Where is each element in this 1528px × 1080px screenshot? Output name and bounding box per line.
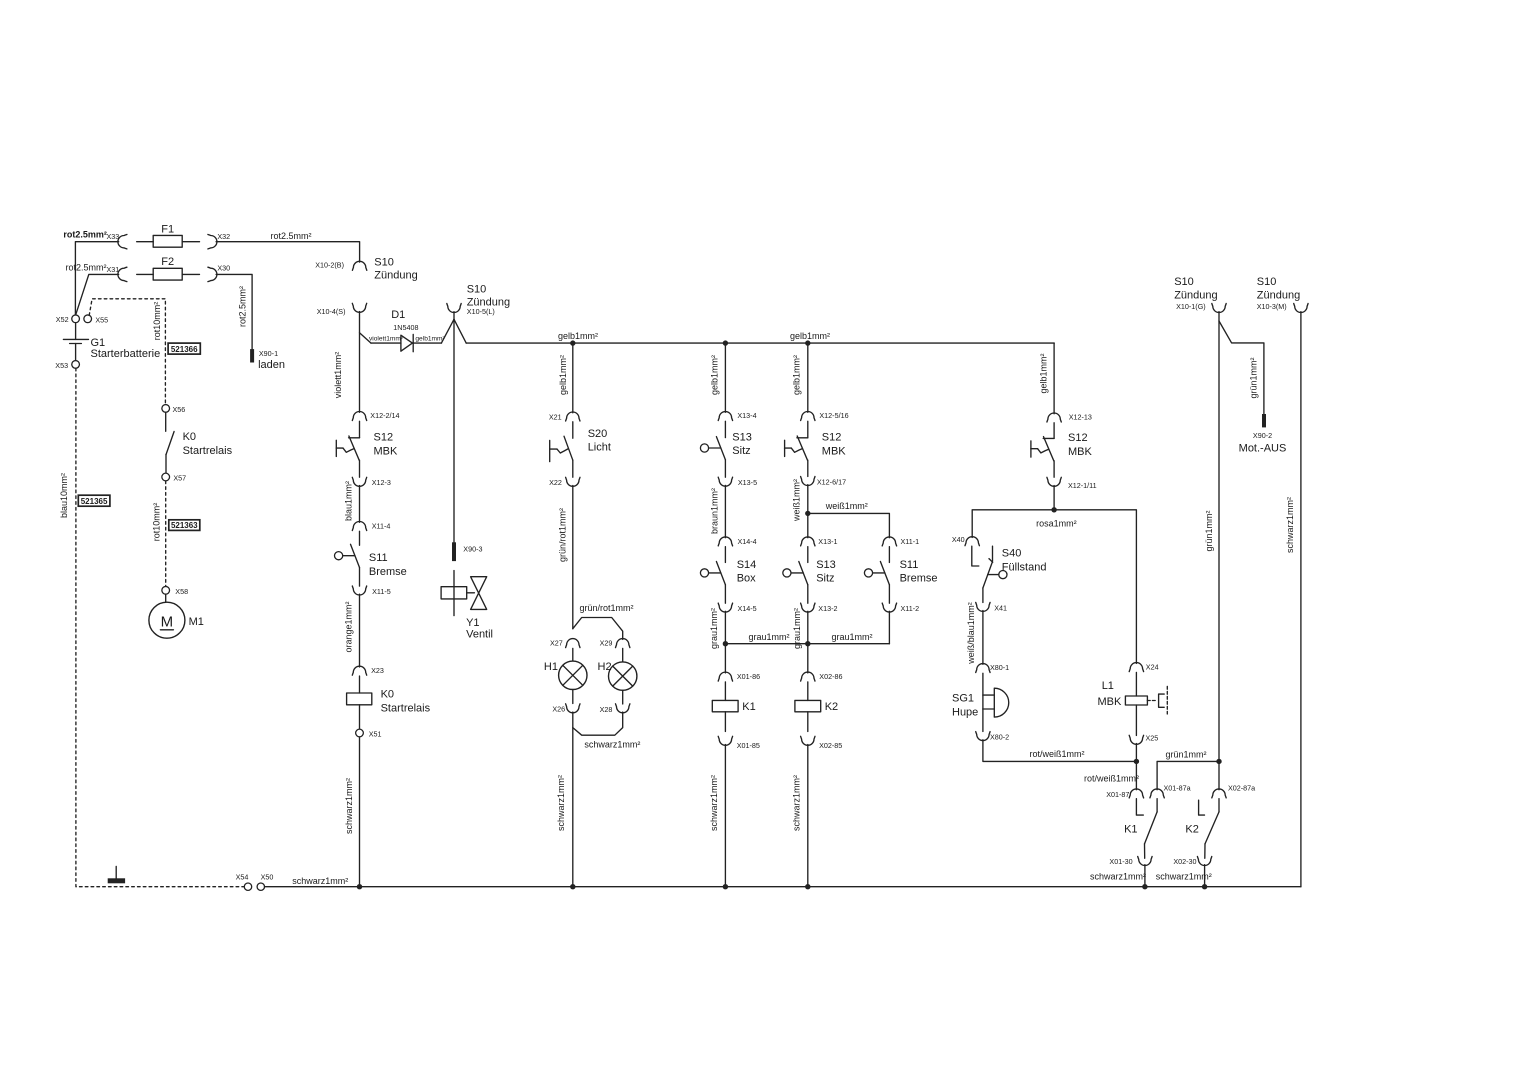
svg-text:S14: S14 bbox=[737, 559, 757, 571]
node X54 bbox=[244, 883, 251, 890]
switch S13 Sitz (2) bbox=[807, 547, 809, 563]
svg-text:Startrelais: Startrelais bbox=[381, 702, 431, 714]
relay coil K0 Startrelais bbox=[359, 676, 361, 693]
svg-text:X23: X23 bbox=[371, 666, 384, 675]
svg-text:blau1mm²: blau1mm² bbox=[343, 481, 353, 521]
switch S12 MBK (3) bbox=[1053, 423, 1055, 439]
connector X11-4 bbox=[352, 522, 366, 531]
svg-text:S11: S11 bbox=[900, 559, 919, 571]
svg-text:X30: X30 bbox=[217, 263, 230, 272]
junction bbox=[805, 340, 810, 345]
connector X80-1 bbox=[976, 664, 990, 673]
svg-text:X12-13: X12-13 bbox=[1069, 413, 1092, 422]
relay contact K1 bbox=[1136, 799, 1143, 815]
svg-text:Mot.-AUS: Mot.-AUS bbox=[1239, 442, 1287, 454]
node X30 bbox=[208, 267, 217, 281]
switch S14 Box bbox=[724, 547, 726, 563]
svg-text:schwarz1mm²: schwarz1mm² bbox=[1090, 871, 1146, 881]
connector X14-5 bbox=[718, 603, 732, 612]
wire rot2.5mm2 X30 to X90-1 laden bbox=[216, 274, 252, 349]
wire bbox=[1053, 461, 1055, 477]
svg-text:X55: X55 bbox=[95, 316, 108, 325]
node X58 bbox=[162, 586, 170, 594]
lamp H2 bbox=[622, 648, 624, 662]
wire gelb1mm2 bus to X13-4 bbox=[724, 343, 726, 412]
wire schwarz1mm2 to bus bbox=[1144, 865, 1146, 887]
wire bbox=[807, 460, 809, 476]
connector X11-5 bbox=[352, 586, 366, 595]
svg-text:grau1mm²: grau1mm² bbox=[792, 608, 802, 649]
junction weiss node bbox=[805, 511, 810, 516]
svg-text:X56: X56 bbox=[173, 405, 186, 414]
svg-text:K0: K0 bbox=[381, 689, 394, 701]
wire schwarz1mm2 to bus bbox=[807, 745, 809, 887]
clutch coil L1 MBK bbox=[1135, 672, 1137, 696]
svg-text:SG1: SG1 bbox=[952, 693, 974, 705]
wire schwarz1mm2 to bus bbox=[724, 745, 726, 887]
junction grau node K1 bbox=[723, 641, 728, 646]
horn SG1 Hupe bbox=[982, 673, 984, 709]
svg-text:X01-30: X01-30 bbox=[1109, 857, 1132, 866]
svg-text:G1: G1 bbox=[91, 337, 106, 349]
svg-text:grün/rot1mm²: grün/rot1mm² bbox=[558, 508, 568, 562]
svg-text:X58: X58 bbox=[175, 587, 188, 596]
svg-text:orange1mm²: orange1mm² bbox=[344, 601, 354, 652]
svg-text:rot2.5mm²: rot2.5mm² bbox=[237, 286, 247, 327]
svg-text:grau1mm²: grau1mm² bbox=[748, 632, 789, 642]
relay coil K1 bbox=[724, 682, 726, 701]
wire gelb1mm2 diode to bus bbox=[413, 342, 441, 344]
node X51 bbox=[356, 729, 364, 737]
connector X02-85 bbox=[801, 736, 815, 745]
wire gruen1mm2 node to X01-87a bbox=[1157, 761, 1219, 789]
connector X10-3(M) bbox=[1294, 304, 1308, 313]
svg-text:S10: S10 bbox=[467, 284, 487, 296]
svg-text:schwarz1mm²: schwarz1mm² bbox=[792, 775, 802, 831]
node X32 bbox=[208, 235, 217, 249]
svg-text:F1: F1 bbox=[161, 223, 174, 235]
svg-text:X02-85: X02-85 bbox=[819, 741, 842, 750]
junction grau node K2 bbox=[805, 641, 810, 646]
dashed wire rot10mm2 X55 to X56 bbox=[89, 299, 165, 405]
wire rot/weiss1mm2 node to X01-87 bbox=[1135, 761, 1137, 789]
svg-text:X32: X32 bbox=[217, 232, 230, 241]
svg-text:gelb1mm²: gelb1mm² bbox=[790, 331, 830, 341]
svg-text:rot10mm²: rot10mm² bbox=[152, 302, 162, 341]
wire to node bbox=[1135, 744, 1137, 762]
svg-text:X01-86: X01-86 bbox=[737, 672, 760, 681]
wire violett1mm2 X10-4(S) to X12-2/14 bbox=[359, 312, 361, 413]
svg-text:X57: X57 bbox=[173, 474, 186, 483]
terminal X90-1 laden bbox=[250, 349, 254, 362]
svg-text:X11-5: X11-5 bbox=[372, 587, 391, 596]
node X50 bbox=[257, 883, 264, 890]
connector X12-2/14 bbox=[352, 412, 366, 421]
wire bbox=[1204, 844, 1206, 858]
svg-text:X52: X52 bbox=[56, 315, 69, 324]
svg-text:blau10mm²: blau10mm² bbox=[59, 473, 69, 518]
svg-text:rot/weiß1mm²: rot/weiß1mm² bbox=[1084, 773, 1139, 783]
junction bbox=[723, 884, 728, 889]
relay contact K0 Startrelais bbox=[165, 412, 167, 431]
dashed wire rot10mm2 X57 to X58 bbox=[165, 481, 167, 586]
wire schwarz1mm2 X51 to bus bbox=[359, 737, 361, 887]
svg-text:S40: S40 bbox=[1002, 548, 1022, 560]
junction gruen node bbox=[1216, 759, 1221, 764]
svg-text:X12-5/16: X12-5/16 bbox=[819, 411, 848, 420]
label 521366 bbox=[168, 343, 200, 354]
svg-text:X53: X53 bbox=[55, 361, 68, 370]
svg-text:X31: X31 bbox=[107, 265, 120, 274]
wire grau1mm2 X13-2 to node bbox=[807, 611, 809, 643]
wire bbox=[807, 644, 809, 673]
svg-text:K2: K2 bbox=[1185, 823, 1198, 835]
wire blau1mm2 X12-3 to X11-4 bbox=[359, 486, 361, 523]
wire gruen1mm2 branch to Mot.-AUS bbox=[1219, 321, 1264, 414]
svg-text:Zündung: Zündung bbox=[1257, 290, 1300, 302]
svg-text:grau1mm²: grau1mm² bbox=[831, 632, 872, 642]
svg-text:X11-2: X11-2 bbox=[901, 604, 920, 613]
svg-text:X28: X28 bbox=[600, 705, 613, 714]
wire grau1mm2 node to node bbox=[725, 643, 807, 645]
svg-text:S10: S10 bbox=[374, 257, 394, 269]
connector X12-6/17 bbox=[801, 477, 815, 486]
connector X11-1 bbox=[882, 537, 896, 546]
connector X40 bbox=[965, 537, 979, 546]
wire schwarz1mm2 ground bus bbox=[265, 886, 1301, 888]
wire bbox=[724, 585, 726, 604]
svg-text:X10-3(M): X10-3(M) bbox=[1257, 302, 1287, 311]
connector X01-85 bbox=[718, 736, 732, 745]
svg-text:Bremse: Bremse bbox=[369, 566, 407, 578]
svg-text:rot/weiß1mm²: rot/weiß1mm² bbox=[1029, 749, 1084, 759]
svg-text:rot2.5mm²: rot2.5mm² bbox=[63, 230, 107, 240]
wire bbox=[724, 460, 726, 477]
svg-text:Zündung: Zündung bbox=[374, 269, 417, 281]
connector X02-87a bbox=[1212, 789, 1226, 798]
svg-text:S10: S10 bbox=[1257, 276, 1277, 288]
svg-text:grün/rot1mm²: grün/rot1mm² bbox=[579, 603, 633, 613]
svg-text:Starterbatterie: Starterbatterie bbox=[91, 348, 161, 360]
wire grau1mm2 node to S11 branch bbox=[808, 643, 890, 645]
wire bbox=[359, 568, 361, 587]
svg-text:MBK: MBK bbox=[1068, 446, 1093, 458]
connector X13-4 bbox=[718, 412, 732, 421]
switch S11 Bremse (1) bbox=[359, 531, 361, 545]
node X53 bbox=[72, 361, 80, 369]
svg-text:X01-85: X01-85 bbox=[737, 741, 760, 750]
node X57 bbox=[162, 473, 170, 481]
wire schwarz1mm2 merge from H2 bbox=[573, 712, 623, 735]
svg-text:X90-1: X90-1 bbox=[259, 349, 278, 358]
svg-text:D1: D1 bbox=[391, 309, 405, 321]
connector X13-2 bbox=[801, 603, 815, 612]
svg-text:grün1mm²: grün1mm² bbox=[1249, 357, 1259, 398]
ground chassis symbol bbox=[115, 866, 117, 878]
svg-text:schwarz1mm²: schwarz1mm² bbox=[1285, 497, 1295, 553]
connector X25 bbox=[1129, 735, 1143, 744]
svg-text:521366: 521366 bbox=[171, 345, 198, 354]
svg-text:MBK: MBK bbox=[1098, 696, 1123, 708]
svg-text:1N5408: 1N5408 bbox=[393, 323, 418, 332]
svg-text:X13-4: X13-4 bbox=[737, 411, 756, 420]
svg-text:X21: X21 bbox=[549, 412, 562, 421]
connector X01-30 bbox=[1138, 857, 1152, 866]
svg-text:K0: K0 bbox=[183, 431, 196, 443]
wire schwarz1mm2 to bus bbox=[1204, 865, 1206, 887]
battery G1 Starterbatterie bbox=[72, 315, 80, 323]
wire branch to diode D1 bbox=[360, 333, 372, 343]
svg-text:L1: L1 bbox=[1102, 680, 1114, 692]
svg-text:K2: K2 bbox=[825, 701, 838, 713]
svg-text:X12-2/14: X12-2/14 bbox=[370, 411, 399, 420]
wire rot2.5mm2 X32 to X10-2(B) bbox=[216, 242, 360, 262]
svg-text:weiß1mm²: weiß1mm² bbox=[791, 479, 801, 522]
svg-text:X10-4(S): X10-4(S) bbox=[317, 307, 346, 316]
svg-text:X01-87a: X01-87a bbox=[1164, 783, 1191, 792]
solenoid valve Y1 Ventil bbox=[453, 571, 455, 616]
label 521365 bbox=[78, 495, 110, 506]
connector X01-87 bbox=[1129, 789, 1143, 798]
svg-text:S20: S20 bbox=[588, 428, 608, 440]
wire bbox=[1218, 761, 1220, 789]
svg-text:S10: S10 bbox=[1174, 276, 1194, 288]
switch S11 Bremse (2) bbox=[888, 547, 890, 563]
svg-text:X12-1/11: X12-1/11 bbox=[1068, 481, 1097, 490]
connector X41 bbox=[976, 602, 990, 611]
connector X28 bbox=[616, 704, 630, 713]
svg-text:gelb1mm²: gelb1mm² bbox=[1039, 353, 1049, 393]
svg-text:X40: X40 bbox=[952, 535, 965, 544]
svg-text:gelb1mm²: gelb1mm² bbox=[710, 355, 720, 395]
svg-text:S13: S13 bbox=[732, 432, 752, 444]
svg-text:X41: X41 bbox=[994, 603, 1007, 612]
svg-text:X90-3: X90-3 bbox=[463, 545, 482, 554]
junction rot/weiss node bbox=[1134, 759, 1139, 764]
wire grau1mm2 X14-5 to node bbox=[724, 611, 726, 643]
svg-text:grün1mm²: grün1mm² bbox=[1165, 749, 1206, 759]
svg-text:Bremse: Bremse bbox=[900, 573, 938, 585]
svg-text:Zündung: Zündung bbox=[1174, 290, 1217, 302]
svg-text:Y1: Y1 bbox=[466, 617, 479, 629]
wire gelb1mm2 bus to X12-13 bbox=[1053, 343, 1055, 414]
svg-text:schwarz1mm²: schwarz1mm² bbox=[344, 778, 354, 834]
svg-text:F2: F2 bbox=[161, 256, 174, 268]
svg-text:grün1mm²: grün1mm² bbox=[1204, 510, 1214, 551]
svg-text:X90-2: X90-2 bbox=[1253, 431, 1272, 440]
svg-text:violett1mm²: violett1mm² bbox=[333, 352, 343, 399]
wire bbox=[572, 460, 574, 477]
connector X13-1 bbox=[801, 537, 815, 546]
svg-text:X54: X54 bbox=[236, 872, 249, 881]
svg-text:rot2.5mm²: rot2.5mm² bbox=[66, 263, 107, 273]
wire bbox=[359, 460, 361, 477]
svg-text:521365: 521365 bbox=[81, 497, 108, 506]
junction bbox=[1142, 884, 1147, 889]
connector X10-4(S) bbox=[352, 303, 366, 312]
svg-text:M: M bbox=[161, 613, 174, 630]
connector X02-86 bbox=[801, 672, 815, 681]
connector X12-1/11 bbox=[1047, 477, 1061, 486]
wire weiss/blau1mm2 X41 to X80-1 bbox=[982, 611, 984, 665]
relay coil K2 bbox=[807, 682, 809, 701]
svg-text:S13: S13 bbox=[816, 559, 836, 571]
wire bbox=[572, 690, 574, 704]
wire gruen/rot1mm2 split to H2 bbox=[573, 618, 623, 640]
svg-text:weiß1mm²: weiß1mm² bbox=[825, 501, 868, 511]
wire gelb1mm2 down to Y1 bbox=[453, 319, 455, 542]
wire weiss1mm2 to node bbox=[807, 485, 809, 514]
wire bbox=[807, 513, 809, 537]
connector X01-86 bbox=[718, 672, 732, 681]
svg-text:Ventil: Ventil bbox=[466, 629, 493, 641]
wire bbox=[1144, 844, 1146, 858]
level switch S40 Fuellstand bbox=[972, 546, 979, 566]
svg-text:X25: X25 bbox=[1146, 733, 1159, 742]
connector X01-87a bbox=[1150, 789, 1164, 798]
wire orange1mm2 X11-5 to X23 bbox=[359, 594, 361, 667]
svg-text:X02-87a: X02-87a bbox=[1228, 783, 1255, 792]
svg-text:gelb1mm²: gelb1mm² bbox=[792, 355, 802, 395]
svg-text:gelb1mm²: gelb1mm² bbox=[558, 355, 568, 395]
starter motor M1 bbox=[165, 594, 167, 602]
svg-text:K1: K1 bbox=[742, 701, 755, 713]
svg-text:X33: X33 bbox=[107, 232, 120, 241]
svg-text:Sitz: Sitz bbox=[816, 573, 834, 585]
connector X13-5 bbox=[718, 477, 732, 486]
junction bbox=[570, 884, 575, 889]
svg-text:gelb1mm²: gelb1mm² bbox=[415, 336, 445, 343]
junction rosa node bbox=[1051, 507, 1056, 512]
svg-text:Hupe: Hupe bbox=[952, 706, 978, 718]
svg-text:X02-30: X02-30 bbox=[1173, 857, 1196, 866]
wire gelb1mm2 bus to X21 bbox=[572, 343, 574, 413]
mechanical linkage dashed bbox=[1147, 700, 1157, 702]
svg-text:X01-87: X01-87 bbox=[1106, 790, 1129, 799]
svg-text:grau1mm²: grau1mm² bbox=[709, 608, 719, 649]
switch S12 MBK (2) bbox=[807, 421, 809, 438]
svg-text:X26: X26 bbox=[552, 705, 565, 714]
wire rosa1mm2 to node bbox=[1053, 486, 1055, 510]
connector X26 bbox=[566, 704, 580, 713]
connector X22 bbox=[566, 477, 580, 486]
svg-text:S11: S11 bbox=[369, 552, 388, 564]
wire rosa1mm2 node to X40 and L1 bbox=[972, 510, 1136, 664]
svg-text:Sitz: Sitz bbox=[732, 445, 750, 457]
wire gelb1mm2 bus to X12-5/16 bbox=[807, 343, 809, 412]
terminal X90-2 Mot.-AUS bbox=[1262, 414, 1266, 427]
wire bbox=[982, 709, 984, 732]
svg-text:S12: S12 bbox=[822, 432, 842, 444]
svg-text:weiß/blau1mm²: weiß/blau1mm² bbox=[966, 602, 976, 665]
svg-text:X12-6/17: X12-6/17 bbox=[817, 478, 846, 487]
connector X80-2 bbox=[976, 732, 990, 741]
svg-text:M1: M1 bbox=[189, 616, 204, 628]
svg-text:laden: laden bbox=[258, 359, 285, 371]
svg-text:X80-1: X80-1 bbox=[990, 663, 1009, 672]
svg-text:H1: H1 bbox=[544, 661, 558, 673]
svg-text:MBK: MBK bbox=[822, 445, 847, 457]
junction bbox=[805, 884, 810, 889]
terminal X90-3 bbox=[452, 542, 456, 561]
svg-text:Füllstand: Füllstand bbox=[1002, 562, 1047, 574]
node X56 bbox=[162, 405, 170, 413]
connector X23 bbox=[352, 666, 366, 675]
svg-text:X27: X27 bbox=[550, 638, 563, 647]
svg-text:X22: X22 bbox=[549, 478, 562, 487]
svg-text:X10-5(L): X10-5(L) bbox=[467, 307, 495, 316]
svg-text:rot2.5mm²: rot2.5mm² bbox=[270, 231, 311, 241]
svg-text:H2: H2 bbox=[598, 661, 612, 673]
connector X10-5(L) bbox=[447, 304, 461, 313]
wire bbox=[807, 585, 809, 604]
wire gelb1mm2 bus bbox=[466, 342, 1054, 344]
svg-text:MBK: MBK bbox=[374, 445, 399, 457]
connector X24 bbox=[1129, 663, 1143, 672]
wire rot2.5mm2 from X33 down to battery X52 bbox=[75, 242, 118, 315]
wire gelb1mm2 X10-5 to bus V bbox=[453, 312, 455, 320]
svg-text:X80-2: X80-2 bbox=[990, 733, 1009, 742]
svg-text:X24: X24 bbox=[1146, 663, 1159, 672]
connector X12-5/16 bbox=[801, 412, 815, 421]
svg-text:Startrelais: Startrelais bbox=[183, 445, 233, 457]
junction bbox=[723, 340, 728, 345]
svg-text:X12-3: X12-3 bbox=[372, 478, 391, 487]
wire schwarz1mm2 X10-3 to bus bbox=[1300, 312, 1302, 887]
svg-text:Licht: Licht bbox=[588, 442, 611, 454]
wire bbox=[622, 690, 624, 704]
svg-text:X10-1(G): X10-1(G) bbox=[1176, 302, 1206, 311]
connector X12-3 bbox=[352, 477, 366, 486]
svg-text:rot10mm²: rot10mm² bbox=[152, 503, 162, 542]
svg-text:schwarz1mm²: schwarz1mm² bbox=[584, 739, 640, 749]
connector X02-30 bbox=[1197, 857, 1211, 866]
svg-text:X14-5: X14-5 bbox=[738, 604, 757, 613]
svg-text:rosa1mm²: rosa1mm² bbox=[1036, 518, 1077, 528]
svg-text:schwarz1mm²: schwarz1mm² bbox=[709, 775, 719, 831]
svg-text:X11-4: X11-4 bbox=[372, 522, 391, 531]
svg-text:schwarz1mm²: schwarz1mm² bbox=[556, 775, 566, 831]
svg-text:schwarz1mm²: schwarz1mm² bbox=[292, 876, 348, 886]
wire bbox=[724, 644, 726, 673]
wire rot/weiss1mm2 SG1 to node bbox=[983, 740, 1137, 762]
label 521363 bbox=[169, 520, 200, 531]
svg-text:X29: X29 bbox=[600, 638, 613, 647]
switch S13 Sitz (1) bbox=[724, 421, 726, 437]
dashed wire blau10mm2 X53 to ground bus bbox=[76, 368, 244, 886]
svg-text:X13-2: X13-2 bbox=[818, 604, 837, 613]
connector X21 bbox=[566, 412, 580, 421]
wire gruen/rot1mm2 X22 down bbox=[572, 486, 574, 629]
junction bbox=[570, 340, 575, 345]
svg-text:schwarz1mm²: schwarz1mm² bbox=[1156, 871, 1212, 881]
svg-text:gelb1mm²: gelb1mm² bbox=[558, 331, 598, 341]
relay contact K2 bbox=[1199, 800, 1205, 815]
connector X14-4 bbox=[718, 537, 732, 546]
wire rot2.5mm2 from X31 down to battery X52 bbox=[76, 274, 119, 314]
svg-text:Box: Box bbox=[737, 573, 756, 585]
connector X11-2 bbox=[882, 603, 896, 612]
svg-text:521363: 521363 bbox=[171, 521, 198, 530]
svg-text:X11-1: X11-1 bbox=[901, 537, 920, 546]
svg-text:S12: S12 bbox=[1068, 432, 1088, 444]
connector X10-2(B) bbox=[352, 261, 366, 270]
svg-text:X10-2(B): X10-2(B) bbox=[315, 260, 344, 269]
svg-text:X02-86: X02-86 bbox=[819, 672, 842, 681]
svg-text:K1: K1 bbox=[1124, 823, 1137, 835]
wire braun1mm2 X13-5 to X14-4 bbox=[724, 485, 726, 537]
svg-text:X51: X51 bbox=[369, 730, 382, 739]
